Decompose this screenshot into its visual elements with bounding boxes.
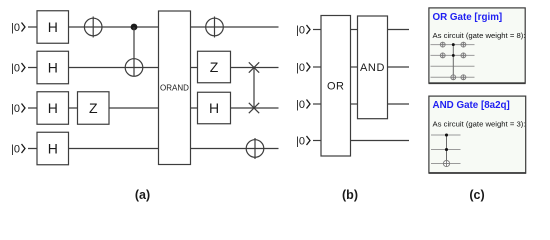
wire q3 left (b) xyxy=(313,140,321,142)
wire q1 mid stub (b) xyxy=(351,66,358,68)
svg-text:H: H xyxy=(209,100,219,116)
svg-text:|0: |0 xyxy=(11,103,20,115)
svg-text:|0: |0 xyxy=(296,24,305,36)
svg-text:|0: |0 xyxy=(11,62,20,74)
svg-text:Z: Z xyxy=(210,59,219,75)
wire q1 (a) xyxy=(28,67,279,69)
svg-text:(a): (a) xyxy=(135,188,150,202)
wire q0 (a) xyxy=(28,26,279,28)
svg-text:|0: |0 xyxy=(11,22,20,34)
gate H q2 col1 xyxy=(37,92,69,125)
wire q2 (a) xyxy=(28,107,279,109)
wire q2 right (b) xyxy=(388,103,410,105)
ket |0> q3 (a) xyxy=(11,143,25,155)
svg-text:Z: Z xyxy=(89,100,98,116)
svg-text:(c): (c) xyxy=(469,188,484,202)
panel OR gate xyxy=(429,8,526,84)
gate OR box xyxy=(321,16,351,157)
mini oplus r4c2 xyxy=(451,75,456,80)
gate AND box xyxy=(358,16,388,119)
svg-text:AND Gate [8a2q]: AND Gate [8a2q] xyxy=(433,100,510,111)
mini oplus r1c1 xyxy=(440,42,445,47)
wire q2 left (b) xyxy=(313,103,321,105)
mini vertical connector AND panel xyxy=(446,135,448,164)
mini vertical connector OR panel xyxy=(452,45,454,78)
ket |0> q1 (b) xyxy=(296,62,310,74)
mini oplus r2c1 xyxy=(440,53,445,58)
swap cross q2 xyxy=(249,103,259,113)
svg-text:H: H xyxy=(48,60,58,76)
swap gate vertical wire xyxy=(253,68,255,109)
wire q3 (a) xyxy=(28,148,279,150)
svg-text:OR Gate [rgim]: OR Gate [rgim] xyxy=(433,12,503,23)
gate X (oplus) q0 col4 xyxy=(206,17,224,38)
svg-text:AND: AND xyxy=(360,62,385,74)
CNOT target q1 xyxy=(125,59,143,77)
swap cross q1 xyxy=(249,62,259,72)
gate X (oplus) q3 col5 xyxy=(246,138,264,159)
svg-text:As circuit (gate weight = 8):: As circuit (gate weight = 8): xyxy=(433,31,526,40)
svg-text:|0: |0 xyxy=(296,135,305,147)
mini oplus r4c3 xyxy=(461,75,466,80)
wire q2 mid stub (b) xyxy=(351,103,358,105)
wire q0 mid stub (b) xyxy=(351,29,358,31)
panel AND gate xyxy=(429,96,527,173)
mini control dot and r1 xyxy=(445,133,448,136)
wire q1 left (b) xyxy=(313,66,321,68)
gate H q0 col1 xyxy=(37,11,69,44)
mini oplus and r3 xyxy=(443,160,449,166)
gate Z q2 col2 xyxy=(78,92,110,125)
svg-text:H: H xyxy=(48,100,58,116)
ket |0> q2 (b) xyxy=(296,99,310,111)
ket |0> q0 (a) xyxy=(11,22,25,34)
mini wires AND panel xyxy=(431,135,461,164)
svg-text:H: H xyxy=(48,19,58,35)
ket |0> q0 (b) xyxy=(296,24,310,36)
ket |0> q3 (b) xyxy=(296,135,310,147)
svg-text:ORAND: ORAND xyxy=(160,84,189,93)
svg-text:|0: |0 xyxy=(11,143,20,155)
CNOT vertical wire xyxy=(133,27,135,76)
ket |0> q2 (a) xyxy=(11,103,25,115)
svg-text:|0: |0 xyxy=(296,99,305,111)
mini oplus r1c3 xyxy=(461,42,466,47)
ket |0> q1 (a) xyxy=(11,62,25,74)
svg-text:OR: OR xyxy=(327,81,345,93)
wire q0 right (b) xyxy=(388,29,410,31)
mini oplus r2c3 xyxy=(461,53,466,58)
mini control dot and r2 xyxy=(445,148,448,151)
gate H q2 col4 xyxy=(198,92,231,124)
wire q3 right (b) xyxy=(351,140,410,142)
gate H q1 col1 xyxy=(37,51,69,84)
mini wires OR panel xyxy=(431,45,475,78)
CNOT control q0 xyxy=(131,24,138,31)
mini control dot r1 xyxy=(452,43,455,46)
svg-text:As circuit (gate weight = 3):: As circuit (gate weight = 3): xyxy=(433,119,526,128)
gate Z q1 col4 xyxy=(198,51,231,83)
svg-text:H: H xyxy=(48,141,58,157)
svg-text:(b): (b) xyxy=(342,188,358,202)
svg-text:|0: |0 xyxy=(296,62,305,74)
gate ORAND box xyxy=(159,11,191,165)
wire q0 left (b) xyxy=(313,29,321,31)
gate X (oplus) q0 col2 xyxy=(84,17,102,38)
gate H q3 col1 xyxy=(37,132,69,165)
mini control dot r2 xyxy=(452,54,455,57)
wire q1 right (b) xyxy=(388,66,410,68)
